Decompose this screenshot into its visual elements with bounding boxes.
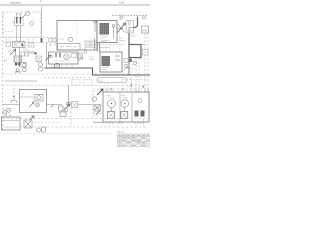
arrow out of box B (118, 27, 123, 29)
balloon C (124, 64, 128, 68)
arrow tick right bus 1 (129, 85, 132, 88)
dashed bus y74 full (3, 73, 132, 75)
tiny node circle left (5, 60, 7, 62)
lever (113, 27, 115, 38)
diag arrow across box edge (46, 55, 51, 61)
dashed bus y42.5 (3, 42, 57, 44)
dashed bus under box B (95, 44, 125, 46)
valve V1 down wires (16, 26, 18, 43)
dashed horizontals right lower (122, 79, 148, 81)
box under (20, 63, 27, 68)
dashed stubs into manifold top (105, 83, 108, 92)
pump unit enclosure (20, 90, 47, 113)
header fold tick (40, 0, 42, 3)
circle pair mid (39, 63, 43, 67)
manifold rect bottom right (103, 92, 149, 122)
small rect right of thick box (143, 50, 149, 56)
capsule microtext (99, 80, 103, 82)
thick step line (129, 17, 138, 45)
small box left of valve (59, 106, 64, 111)
dark terminal on wire (41, 38, 43, 43)
center valve group (67, 102, 71, 106)
vertical dashed connectors (70, 108, 72, 127)
small box R2 with spring (142, 26, 149, 33)
microtext under X pump (119, 38, 125, 41)
balloon 4 (120, 16, 123, 19)
dashed stubs right of capsule (122, 77, 132, 92)
right header microtext (112, 14, 148, 16)
tiny comp boxes on bus (49, 39, 53, 42)
svg-text:Nr 1.1: Nr 1.1 (118, 131, 125, 134)
svg-text:Hauptspul: Hauptspul (10, 1, 21, 4)
arrow ticks on bus y89 (110, 88, 124, 90)
valve box over step (126, 21, 134, 34)
arrow tick right bus 2 (141, 86, 144, 89)
pump group left (13, 88, 15, 95)
title block table (118, 134, 151, 147)
marks right of box C (133, 61, 137, 65)
inner dashed guide (76, 23, 78, 44)
valve V1 actuator line (22, 14, 27, 19)
gauge circles (22, 63, 26, 67)
pump head box (35, 95, 43, 102)
header rule (0, 4, 150, 6)
left page dashed border (2, 12, 4, 130)
wire vertical right of enclosure (41, 7, 43, 38)
dashed stub left (4, 31, 15, 33)
dashed bus y37.5 (0, 37, 57, 39)
motor box B (97, 21, 117, 43)
wire into manifold (93, 122, 103, 124)
dashed verticals right (135, 58, 137, 92)
valve V1 left port stub (12, 21, 15, 23)
microtext under bus y42.5 (49, 44, 56, 46)
dark smudge bar left of channel (94, 38, 96, 50)
balloon 5 (143, 16, 146, 19)
microtext left cluster (9, 50, 12, 52)
valve V1 body (15, 18, 24, 26)
enclosure mid line (20, 96, 36, 98)
balloon 2 (30, 22, 34, 26)
stubs below valve box (52, 64, 72, 68)
stub wires into manifold top (136, 88, 148, 93)
left cluster: valve row (6, 42, 11, 47)
X valve bottom left (24, 120, 32, 128)
main valve box (49, 52, 79, 64)
balloon 3 (68, 37, 72, 41)
tiny circle pair (28, 51, 31, 54)
dark pair under piston (15, 63, 17, 66)
spring mark mid right (130, 35, 135, 36)
capsule under thick line (97, 78, 127, 83)
small dashed boxes on bus (72, 80, 80, 86)
diagonal arrow to manifold (97, 89, 103, 95)
wire vertical x46.5 (46, 43, 48, 69)
dashed bus y85.5 (3, 85, 149, 87)
vertical grey bar (99, 43, 101, 52)
hatch under right X valve (94, 113, 101, 115)
motor box C (100, 52, 122, 72)
left solid line to valve (5, 80, 38, 82)
dark terminal tick (22, 44, 24, 47)
wire to microtext row (119, 14, 121, 20)
svg-text:Kyle: Kyle (119, 0, 125, 4)
svg-text:2.2: 2.2 (24, 48, 28, 52)
motor M1 textured block (100, 23, 110, 35)
small comp center bottom (60, 112, 66, 117)
tiny boxes pair (21, 52, 25, 56)
small comp (37, 128, 41, 132)
label box A1 (58, 44, 81, 51)
balloon 1 (26, 12, 30, 16)
comps right inside A (85, 41, 90, 46)
tank box bottom left (2, 117, 21, 130)
dashed arrow bus y89 (93, 88, 135, 90)
hatch under manifold (106, 122, 114, 124)
wire y104.5 left (47, 104, 62, 106)
dark dot comp (35, 52, 37, 55)
hatched small box (14, 56, 22, 63)
right small comp (78, 53, 83, 59)
wire y104.5 right (78, 104, 92, 106)
small box right of valve row (28, 43, 34, 48)
manifold top stubs and labels (107, 89, 112, 93)
right valve group (92, 97, 96, 101)
valve V1 stems (16, 13, 18, 17)
bus tick stubs (7, 38, 34, 43)
pump circle on thick line (55, 63, 60, 68)
big unit box A (57, 21, 97, 51)
bottom internals (108, 112, 115, 119)
diagonal arrow (10, 50, 16, 56)
gauges (108, 100, 116, 108)
dashed enclosure top-left (3, 12, 41, 37)
twin X valve box (13, 42, 26, 48)
legend lines under motor M1 (101, 41, 110, 42)
ball lever left of box B (94, 24, 96, 33)
variable pump X symbol (118, 24, 124, 32)
faint dashed verticals under box B (106, 33, 120, 52)
valve V1 solenoid bars (16, 17, 17, 24)
X box small (36, 56, 42, 62)
dashed bus y78 (44, 77, 92, 79)
pump diag arrow (29, 102, 34, 107)
pump X circle (36, 103, 40, 107)
faint dash in box A (59, 38, 64, 40)
long dashed buses bottom (3, 118, 149, 120)
